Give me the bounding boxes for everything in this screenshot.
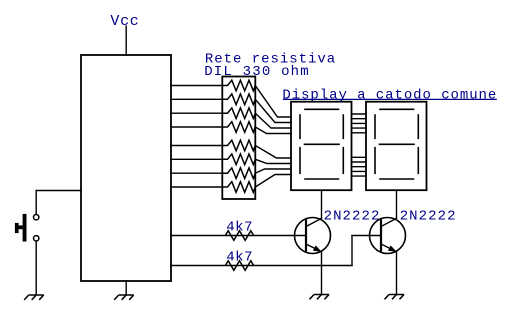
svg-text:Display a catodo comune: Display a catodo comune: [282, 88, 496, 104]
svg-text:4k7: 4k7: [226, 249, 252, 265]
svg-text:2N2222: 2N2222: [400, 208, 456, 224]
svg-text:Vcc: Vcc: [110, 13, 138, 30]
svg-text:2N2222: 2N2222: [324, 208, 380, 224]
svg-text:DIL 330 ohm: DIL 330 ohm: [204, 64, 309, 80]
svg-text:4k7: 4k7: [226, 219, 252, 235]
